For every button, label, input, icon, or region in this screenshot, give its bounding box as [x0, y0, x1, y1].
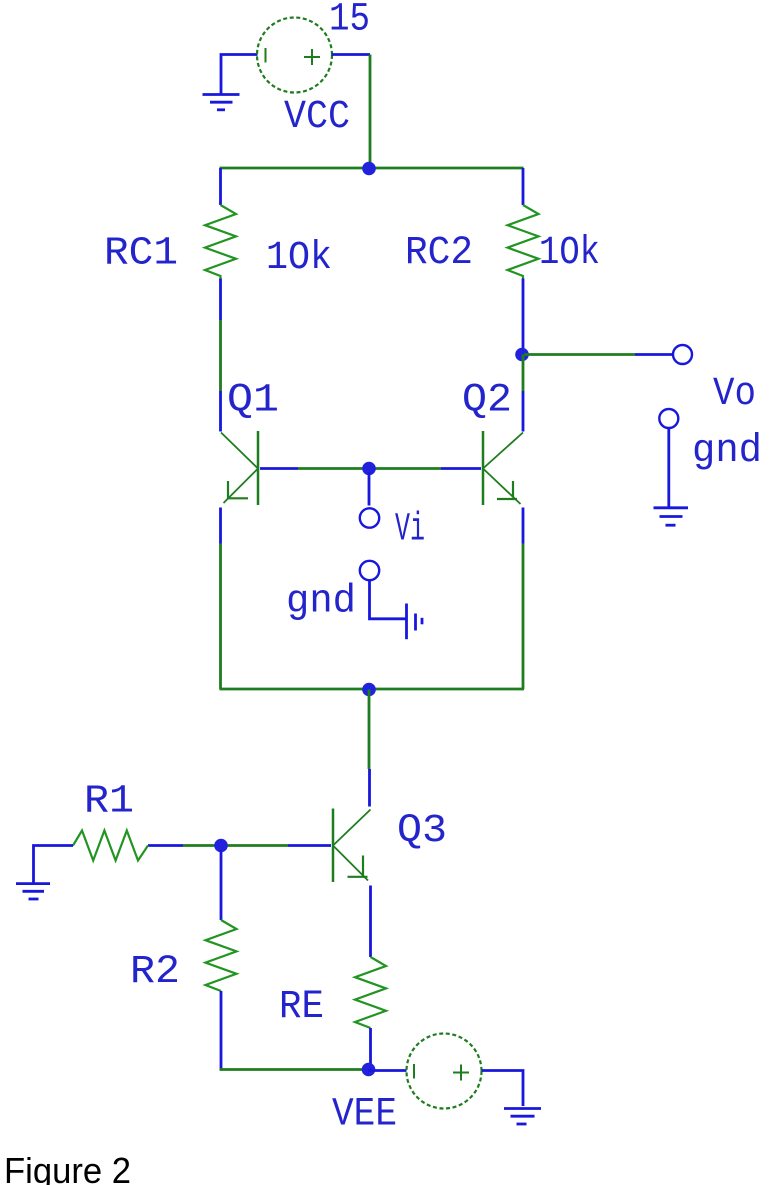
wire	[667, 428, 670, 508]
svg-text:gnd: gnd	[286, 580, 356, 625]
wire	[219, 279, 222, 321]
wire	[522, 279, 525, 355]
resistor RC1	[205, 205, 236, 279]
svg-text:RC2: RC2	[405, 231, 473, 276]
terminal gnd	[360, 561, 379, 580]
wire	[441, 467, 481, 470]
wire	[219, 168, 222, 205]
ground	[16, 884, 50, 899]
value 10k	[266, 236, 332, 281]
svg-text:RE: RE	[279, 985, 324, 1030]
wire	[332, 53, 371, 56]
svg-text:VEE: VEE	[332, 1093, 397, 1138]
resistor RC2	[508, 205, 539, 279]
wire	[219, 508, 222, 544]
wire	[298, 467, 441, 470]
wire	[219, 544, 222, 690]
terminal Vo	[673, 345, 692, 364]
label VCC	[284, 95, 350, 140]
wire	[220, 1068, 369, 1071]
svg-text:RC1: RC1	[104, 232, 178, 277]
voltage source VCC	[257, 18, 332, 93]
label RC2	[405, 231, 473, 276]
wire	[369, 1069, 407, 1072]
wire	[34, 846, 74, 884]
svg-text:VCC: VCC	[284, 95, 350, 140]
ground	[654, 508, 689, 525]
label Q2	[462, 379, 512, 424]
ground	[504, 1109, 541, 1125]
wire	[635, 353, 673, 356]
wire	[221, 55, 258, 95]
junction	[362, 462, 376, 476]
wire	[219, 320, 222, 391]
wire	[183, 844, 288, 847]
label Vi	[395, 508, 425, 553]
resistor R1	[73, 831, 148, 861]
wire	[368, 472, 371, 506]
label R2	[130, 950, 180, 995]
wire	[524, 353, 635, 356]
wire	[148, 844, 183, 847]
label gnd	[692, 429, 762, 474]
junction	[214, 839, 228, 853]
ground	[203, 95, 240, 110]
transistor Q1	[221, 431, 258, 505]
terminal Vi	[360, 508, 379, 527]
wire	[260, 467, 298, 470]
svg-text:Figure 2: Figure 2	[4, 1150, 131, 1185]
svg-text:Vo: Vo	[713, 372, 756, 417]
value 10k	[539, 231, 600, 276]
wire	[369, 55, 372, 169]
junction	[362, 162, 376, 176]
label Figure 2	[4, 1150, 131, 1185]
svg-text:Vi: Vi	[395, 508, 425, 553]
svg-text:1Ok: 1Ok	[266, 236, 332, 281]
wire	[220, 167, 524, 170]
junction	[362, 1063, 376, 1077]
wire	[522, 544, 525, 690]
resistor RE	[355, 886, 386, 1070]
wire	[288, 844, 331, 847]
wire	[368, 690, 371, 770]
wire	[482, 1071, 524, 1107]
svg-text:Q3: Q3	[397, 809, 447, 854]
wire	[522, 391, 525, 432]
wire	[219, 391, 222, 432]
terminal gnd	[659, 409, 678, 428]
label R1	[84, 780, 134, 825]
wire	[368, 769, 371, 807]
label gnd	[286, 580, 356, 625]
svg-text:gnd: gnd	[692, 429, 762, 474]
svg-text:R1: R1	[84, 780, 134, 825]
ground (rotated)	[407, 604, 423, 640]
transistor Q2	[483, 431, 523, 505]
label Q1	[227, 379, 279, 424]
label Q3	[397, 809, 447, 854]
label RC1	[104, 232, 178, 277]
transistor Q3	[333, 809, 371, 883]
svg-text:Q1: Q1	[227, 379, 279, 424]
junction	[362, 683, 376, 697]
junction	[515, 348, 529, 362]
svg-text:15: 15	[329, 0, 370, 43]
svg-text:R2: R2	[130, 950, 180, 995]
wire	[220, 688, 525, 691]
wire	[522, 168, 525, 205]
wire	[370, 581, 407, 619]
label RE	[279, 985, 324, 1030]
voltage source VEE	[407, 1034, 482, 1109]
wire	[522, 508, 525, 544]
label VEE	[332, 1093, 397, 1138]
svg-text:1Ok: 1Ok	[539, 231, 600, 276]
label Vo	[713, 372, 756, 417]
resistor R2	[206, 850, 237, 1070]
label 15	[329, 0, 370, 43]
wire	[522, 355, 525, 392]
svg-text:Q2: Q2	[462, 379, 512, 424]
